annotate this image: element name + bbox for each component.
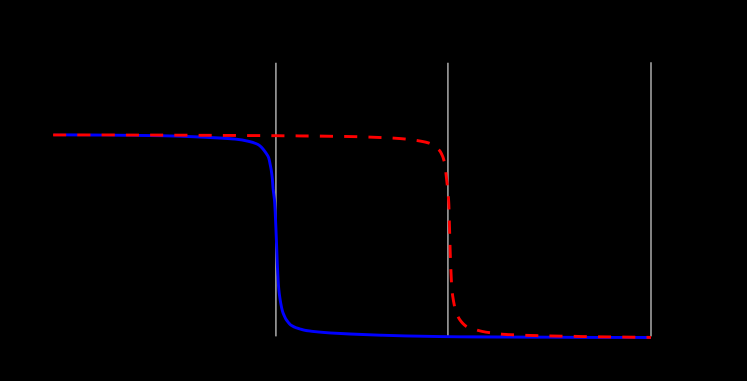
vertical gridline 2 <box>447 63 449 337</box>
red dashed curve <box>53 135 651 338</box>
blue solid curve <box>54 135 651 338</box>
vertical gridline 3 <box>650 62 652 336</box>
vertical gridline 1 <box>275 63 277 337</box>
